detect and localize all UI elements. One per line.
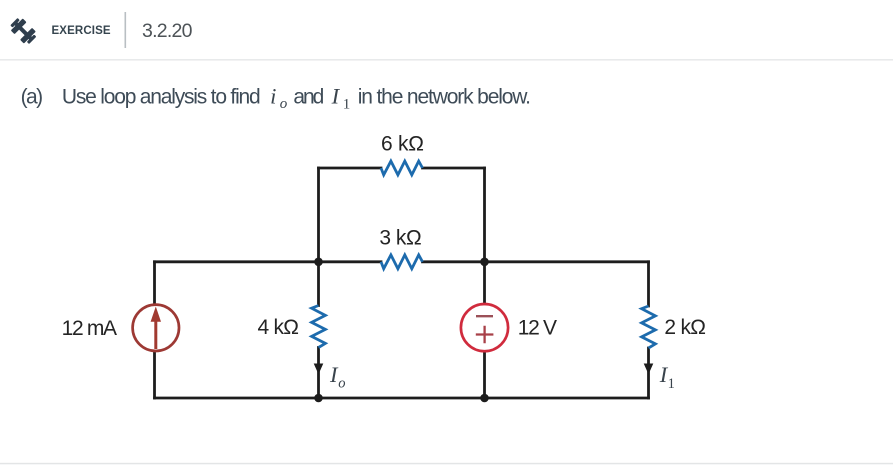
junction dot middle-left node [314, 258, 323, 267]
junction dot middle-right node [480, 258, 489, 267]
wire: center-right vertical top rail to middle rail [483, 168, 486, 262]
header divider [125, 12, 127, 48]
wire: left branch below current source [153, 352, 156, 398]
svg-text:o: o [338, 376, 345, 392]
svg-text:4 kΩ: 4 kΩ [258, 316, 300, 339]
header dumbbell icon [8, 16, 39, 47]
resistor 2 kOhm zigzag [642, 306, 656, 348]
resistor 6 kOhm zigzag [381, 161, 423, 175]
resistor 3 kOhm zigzag [381, 255, 423, 269]
page bottom rule [0, 463, 893, 465]
svg-text:in the network below.: in the network below. [358, 86, 531, 109]
wire: top rail right of 6k [423, 167, 485, 170]
svg-text:EXERCISE: EXERCISE [52, 25, 112, 37]
wire: center-left vertical top rail to middle rail [317, 168, 320, 262]
junction dot bottom-right node [480, 394, 489, 403]
voltage source minus sign [476, 315, 493, 317]
svg-text:3.2.20: 3.2.20 [142, 20, 193, 42]
arrowhead Io on wire [314, 364, 324, 375]
wire: left branch above current source [153, 262, 156, 304]
svg-text:3 kΩ: 3 kΩ [379, 227, 421, 250]
header bottom rule [0, 59, 893, 61]
svg-text:12 mA: 12 mA [62, 317, 117, 340]
current source 12 mA circle [133, 305, 179, 351]
wire: bottom rail [155, 397, 649, 400]
svg-text:I: I [331, 84, 341, 109]
svg-text:1: 1 [343, 97, 351, 113]
svg-text:1: 1 [668, 376, 675, 392]
svg-text:o: o [280, 96, 288, 112]
wire: center-right vertical middle rail to 12V source [483, 262, 486, 304]
wire: 2k resistor to bottom rail (I1 shaft) [647, 348, 650, 398]
wire: center-left vertical middle rail to 4k resistor [317, 262, 320, 306]
current source arrow [151, 307, 161, 350]
resistor 4 kOhm zigzag [312, 306, 326, 348]
svg-text:2 kΩ: 2 kΩ [664, 316, 706, 339]
voltage source 12 V circle [461, 304, 508, 351]
wire: middle rail left of 3k [155, 260, 382, 263]
wire: 12V source to bottom rail [483, 352, 486, 399]
wire: middle rail right of 3k [423, 260, 649, 263]
svg-text:12 V: 12 V [518, 317, 557, 340]
svg-text:Use loop analysis to find: Use loop analysis to find [62, 86, 261, 109]
wire: 4k resistor to bottom rail (Io shaft) [317, 348, 320, 399]
arrowhead I1 on wire [644, 364, 654, 375]
junction dot bottom-left node [314, 394, 323, 403]
svg-text:and: and [293, 86, 324, 109]
wire: top rail left of 6k [319, 167, 382, 170]
wire: right branch above 2k [647, 262, 650, 306]
svg-text:(a): (a) [21, 86, 43, 109]
voltage source plus sign [476, 326, 494, 344]
svg-text:i: i [270, 84, 276, 109]
svg-text:6 kΩ: 6 kΩ [381, 133, 424, 156]
